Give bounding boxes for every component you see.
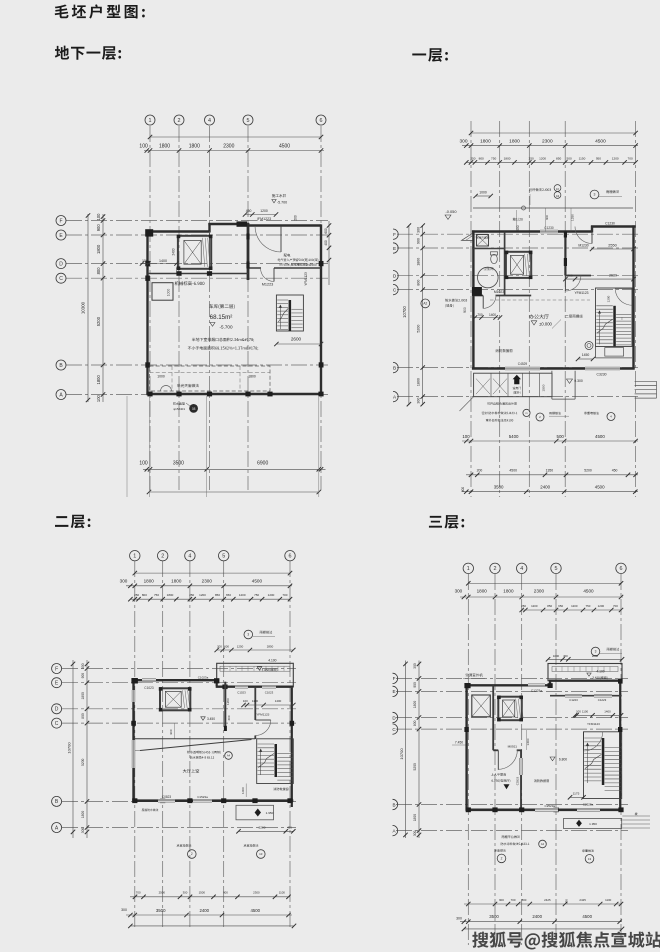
- svg-text:250: 250: [189, 593, 194, 597]
- svg-text:200: 200: [217, 644, 222, 648]
- svg-text:5: 5: [222, 554, 225, 560]
- svg-text:1: 1: [467, 566, 470, 572]
- basement dim 2600: [274, 337, 323, 347]
- svg-text:900: 900: [417, 238, 421, 244]
- svg-text:1200: 1200: [226, 698, 230, 705]
- second-floor column blocks: [131, 678, 294, 803]
- svg-text:5400: 5400: [509, 434, 519, 439]
- svg-text:C1230: C1230: [605, 221, 615, 225]
- svg-text:YFM1123: YFM1123: [256, 713, 269, 717]
- svg-text:850: 850: [215, 593, 220, 597]
- svg-text:500: 500: [567, 156, 572, 160]
- svg-text:1000: 1000: [167, 289, 171, 297]
- subtitle 一层: [412, 48, 448, 62]
- svg-text:A4: A4: [227, 753, 231, 757]
- first-floor dim 2680: [563, 274, 636, 282]
- svg-text:2500: 2500: [159, 890, 166, 894]
- svg-text:250: 250: [470, 156, 475, 160]
- svg-text:2300: 2300: [542, 138, 553, 144]
- svg-text:-5.700: -5.700: [219, 325, 232, 330]
- svg-text:1800: 1800: [167, 593, 174, 597]
- first-floor dim 2550: [590, 244, 636, 252]
- third-floor interior walls: [493, 685, 522, 810]
- svg-text:1800: 1800: [189, 144, 200, 150]
- svg-text:m: m: [525, 412, 527, 415]
- svg-text:1400: 1400: [604, 710, 611, 714]
- basement dims 150 1400: [140, 259, 180, 273]
- svg-text:300: 300: [81, 663, 85, 669]
- svg-text:300: 300: [456, 916, 462, 920]
- svg-text:500: 500: [557, 434, 565, 439]
- svg-text:YFM1123: YFM1123: [304, 272, 308, 286]
- svg-text:A3: A3: [556, 194, 560, 198]
- svg-text:F: F: [393, 232, 396, 237]
- svg-text:5200: 5200: [96, 316, 101, 326]
- svg-text:6900: 6900: [257, 460, 268, 466]
- svg-text:250: 250: [134, 593, 139, 597]
- basement right side dims: [294, 215, 332, 285]
- svg-text:1: 1: [133, 554, 136, 560]
- second-floor balcony jut: [215, 644, 296, 686]
- svg-text:F: F: [59, 218, 62, 224]
- second-floor void notes: [183, 751, 233, 773]
- second-floor bottom markers: [177, 844, 265, 858]
- svg-text:450: 450: [287, 826, 292, 830]
- svg-text:1100: 1100: [605, 898, 612, 902]
- svg-text:D: D: [59, 261, 63, 267]
- first-floor column grid lines: [397, 121, 640, 497]
- first-floor top dimension rows: [459, 131, 638, 165]
- svg-text:1350: 1350: [546, 469, 554, 473]
- svg-text:1800: 1800: [503, 589, 514, 594]
- first-floor ramp and slope note: [462, 210, 523, 240]
- svg-text:1200: 1200: [598, 604, 605, 608]
- svg-text:1800: 1800: [413, 701, 417, 709]
- svg-text:300: 300: [81, 828, 85, 834]
- second-floor bottom wall windows: [158, 795, 212, 803]
- third-floor stair dims: [568, 710, 623, 800]
- svg-text:5200: 5200: [584, 469, 592, 473]
- svg-text:1400: 1400: [275, 699, 282, 703]
- svg-text:300: 300: [417, 227, 421, 233]
- third-floor right side steps: [622, 816, 650, 828]
- svg-text:C0323: C0323: [516, 776, 520, 785]
- svg-text:3500: 3500: [156, 908, 166, 913]
- svg-text:1150: 1150: [579, 156, 586, 160]
- svg-text:900: 900: [413, 682, 417, 688]
- first-floor dim 1450: [576, 353, 595, 361]
- third-floor canopy below: [564, 812, 638, 828]
- svg-text:1100: 1100: [279, 890, 286, 894]
- svg-text:C1523a: C1523a: [197, 795, 208, 799]
- svg-text:750: 750: [491, 156, 496, 160]
- svg-text:800: 800: [81, 713, 85, 719]
- svg-text:1.950: 1.950: [266, 811, 274, 815]
- second-floor door YFM1123: [255, 713, 270, 736]
- svg-text:2400: 2400: [200, 908, 210, 913]
- basement left dimension column: [81, 213, 106, 402]
- svg-text:1800: 1800: [248, 374, 256, 378]
- svg-text:10700: 10700: [402, 306, 407, 318]
- svg-text:3.450: 3.450: [207, 717, 215, 721]
- svg-text:5200: 5200: [413, 763, 417, 771]
- first-floor bottom wall windows: [505, 362, 620, 377]
- svg-text:850: 850: [547, 604, 552, 608]
- first-floor wall detail marker A2: [421, 299, 467, 308]
- svg-text:4.100: 4.100: [268, 659, 276, 663]
- third-floor window C0323 label: [516, 758, 524, 785]
- svg-text:D: D: [55, 707, 59, 713]
- second-floor top dimension rows: [120, 571, 293, 602]
- svg-text:800: 800: [142, 593, 147, 597]
- svg-text:3200: 3200: [259, 826, 266, 830]
- svg-text:100: 100: [139, 144, 148, 150]
- third-floor bottom wall windows: [535, 803, 600, 812]
- second-floor jut levels: [257, 659, 277, 672]
- svg-text:1450: 1450: [582, 353, 590, 357]
- svg-text:1800: 1800: [504, 156, 511, 160]
- svg-text:1500: 1500: [542, 384, 546, 391]
- svg-text:1200: 1200: [199, 593, 206, 597]
- svg-text:1800: 1800: [81, 692, 85, 700]
- basement exterior walls: [146, 223, 322, 395]
- svg-text:M1023: M1023: [494, 290, 504, 294]
- svg-text:1000: 1000: [157, 374, 165, 378]
- svg-text:1200: 1200: [531, 604, 538, 608]
- svg-text:10700: 10700: [67, 742, 72, 754]
- svg-text:300: 300: [567, 274, 572, 278]
- basement top dimension rows: [139, 135, 324, 153]
- first-floor vertical dims 300 1250: [545, 208, 575, 232]
- third-floor bottom notes: [501, 835, 547, 847]
- third-floor stair door YFM1123: [584, 722, 603, 751]
- basement stairs: [276, 272, 307, 331]
- svg-text:2850: 2850: [592, 654, 599, 658]
- svg-text:1250: 1250: [571, 214, 575, 221]
- svg-text:M0921: M0921: [508, 745, 518, 749]
- svg-text:300: 300: [459, 138, 467, 144]
- second-floor elevator shaft: [159, 687, 192, 711]
- first-floor elevator shaft: [505, 251, 533, 280]
- svg-text:1175: 1175: [573, 792, 580, 796]
- first-floor level -0.050: [445, 209, 457, 219]
- svg-text:4500: 4500: [252, 579, 263, 584]
- third-floor stairs: [584, 732, 622, 799]
- svg-text:1200: 1200: [612, 156, 619, 160]
- basement door M1223: [261, 268, 275, 286]
- third-floor AC platform box: [472, 695, 491, 717]
- svg-text:13: 13: [588, 857, 592, 861]
- svg-text:150: 150: [176, 267, 180, 273]
- first-floor canopy dim 1000: [473, 191, 493, 199]
- first-floor canopy edge line: [473, 206, 633, 210]
- svg-text:900: 900: [169, 729, 173, 734]
- svg-text:850: 850: [556, 156, 561, 160]
- svg-text:-5.700: -5.700: [277, 201, 287, 205]
- svg-text:200: 200: [477, 469, 483, 473]
- svg-text:C1023: C1023: [144, 686, 154, 690]
- svg-text:2425: 2425: [579, 898, 586, 902]
- svg-text:300: 300: [413, 663, 417, 669]
- basement interior walls: [148, 232, 322, 274]
- svg-text:E: E: [393, 246, 396, 251]
- first-floor canopy line label: [552, 315, 583, 329]
- first-floor left dimension column: [402, 223, 425, 406]
- first-floor band dims and level: [542, 379, 583, 391]
- second-floor level mark: [201, 717, 216, 721]
- svg-text:400: 400: [227, 715, 231, 720]
- svg-text:5: 5: [247, 118, 250, 124]
- first-floor stairs: [596, 288, 633, 358]
- svg-text:B: B: [392, 802, 395, 807]
- basement storage closet: [152, 283, 173, 301]
- third-floor canopy marker 3/A-2: [591, 647, 622, 656]
- svg-text:300: 300: [455, 589, 463, 594]
- svg-text:400: 400: [324, 240, 328, 246]
- svg-text:2: 2: [494, 566, 497, 572]
- svg-text:2300: 2300: [534, 589, 545, 594]
- first-floor fire window label: [495, 349, 512, 352]
- svg-text:E: E: [392, 689, 395, 694]
- svg-text:C1023: C1023: [237, 691, 246, 695]
- third-floor exterior walls: [466, 680, 623, 811]
- svg-text:1200: 1200: [571, 604, 578, 608]
- first-floor window C1230 top wall: [540, 226, 558, 233]
- svg-text:4500: 4500: [509, 469, 517, 473]
- svg-text:C1023a: C1023a: [198, 675, 209, 679]
- svg-text:1000: 1000: [553, 654, 560, 658]
- svg-text:C1223: C1223: [569, 698, 578, 702]
- third-floor level 7.450 left: [452, 740, 466, 745]
- svg-text:100: 100: [462, 434, 470, 439]
- first-floor railing note with bubbles: [529, 185, 561, 205]
- second-floor canopy marker 3/A-2: [244, 630, 275, 639]
- svg-text:300: 300: [545, 215, 549, 220]
- third-floor roof terrace labels: [491, 773, 510, 789]
- third-floor balcony edge: [546, 654, 624, 681]
- svg-text:750: 750: [585, 604, 590, 608]
- first-floor detail double circle: [585, 342, 593, 350]
- svg-text:600: 600: [324, 228, 328, 234]
- svg-text:300: 300: [413, 830, 417, 836]
- svg-text:1800: 1800: [96, 244, 101, 254]
- svg-text:4500: 4500: [595, 138, 606, 144]
- svg-text:1800: 1800: [417, 258, 421, 266]
- svg-text:1800: 1800: [509, 138, 520, 144]
- svg-text:4: 4: [208, 118, 211, 124]
- svg-text:1400: 1400: [489, 313, 496, 317]
- svg-text:3500: 3500: [173, 460, 184, 466]
- svg-text:100: 100: [243, 699, 248, 703]
- third-floor inner wall right section: [550, 694, 622, 703]
- basement area notes: [188, 338, 258, 351]
- second-floor stairs: [257, 739, 294, 784]
- svg-text:600: 600: [224, 644, 229, 648]
- second-floor void outline: [135, 739, 255, 751]
- svg-text:B: B: [393, 365, 396, 370]
- basement electrical room notes: [278, 254, 318, 267]
- svg-text:2300: 2300: [253, 890, 260, 894]
- svg-text:M1223: M1223: [262, 282, 274, 286]
- svg-text:1000: 1000: [479, 191, 487, 195]
- svg-text:1100: 1100: [252, 699, 259, 703]
- third-floor column blocks: [464, 679, 623, 813]
- first-floor column block C row: [472, 287, 482, 296]
- svg-text:1200: 1200: [607, 295, 611, 302]
- svg-text:200: 200: [294, 215, 298, 221]
- second-floor top wall windows: [142, 675, 276, 694]
- svg-text:900: 900: [499, 898, 504, 902]
- svg-text:800: 800: [413, 720, 417, 726]
- basement column grid lines: [66, 126, 328, 490]
- first-floor window label C1230 right: [605, 221, 615, 225]
- watermark 搜狐号@搜狐焦点宣城站: [472, 931, 660, 949]
- svg-text:1800: 1800: [144, 579, 155, 584]
- third-floor left dimension column: [399, 661, 421, 839]
- svg-text:2550: 2550: [608, 244, 616, 248]
- first-floor louver window band: [460, 373, 553, 411]
- third-floor grid bubbles left (clipped): [392, 673, 397, 836]
- svg-text:950: 950: [596, 156, 601, 160]
- svg-text:C2523a: C2523a: [583, 803, 594, 807]
- first-floor canopy marker 3/A-2: [590, 190, 622, 199]
- svg-text:1100: 1100: [582, 710, 589, 714]
- svg-text:1000: 1000: [241, 787, 245, 794]
- svg-text:300: 300: [121, 908, 127, 912]
- basement skylight dashed outline: [150, 366, 271, 391]
- third-floor level 6.800: [550, 757, 567, 762]
- svg-text:100: 100: [139, 460, 148, 466]
- svg-text:650: 650: [558, 604, 563, 608]
- first-floor bathroom walls: [473, 232, 531, 297]
- svg-text:68.15m²: 68.15m²: [210, 314, 233, 321]
- svg-text:1800: 1800: [96, 374, 101, 384]
- svg-text:M1230: M1230: [578, 243, 588, 247]
- svg-text:F: F: [55, 666, 58, 672]
- svg-text:4: 4: [520, 566, 523, 572]
- svg-text:3500: 3500: [494, 484, 504, 489]
- first-floor door YFM1123: [565, 276, 588, 296]
- sheet title 毛坯户型图: [55, 4, 145, 18]
- first-floor interior wall grid5: [564, 232, 591, 276]
- svg-text:1200: 1200: [260, 209, 268, 213]
- svg-text:700: 700: [282, 593, 287, 597]
- svg-text:650: 650: [226, 593, 231, 597]
- svg-text:2850: 2850: [267, 644, 274, 648]
- svg-text:2600: 2600: [291, 337, 302, 342]
- third-floor grid bubbles top: [463, 563, 626, 573]
- svg-text:0.300: 0.300: [574, 379, 583, 383]
- svg-text:300: 300: [565, 899, 569, 904]
- svg-text:900: 900: [463, 307, 467, 313]
- svg-text:2300: 2300: [223, 144, 234, 150]
- svg-text:1: 1: [149, 118, 152, 124]
- basement room label: [209, 304, 234, 329]
- svg-text:5200: 5200: [81, 758, 85, 766]
- second-floor left wall window: [131, 690, 135, 768]
- svg-text:1400: 1400: [159, 259, 167, 263]
- svg-text:5: 5: [555, 566, 558, 572]
- svg-text:300: 300: [183, 890, 188, 894]
- svg-text:100: 100: [96, 394, 101, 402]
- svg-text:13: 13: [259, 852, 263, 856]
- svg-text:450: 450: [246, 209, 252, 213]
- svg-text:2400: 2400: [532, 914, 542, 919]
- svg-text:2: 2: [161, 554, 164, 560]
- basement level label -6.900: [175, 281, 205, 285]
- svg-text:A2: A2: [423, 302, 427, 306]
- basement grid bubbles left: [56, 216, 66, 400]
- svg-text:250: 250: [529, 156, 534, 160]
- svg-text:1800: 1800: [417, 378, 421, 386]
- svg-text:F: F: [393, 676, 396, 681]
- svg-text:100: 100: [96, 213, 101, 221]
- svg-text:C3230: C3230: [597, 373, 607, 377]
- third-floor fire window label: [534, 779, 549, 782]
- svg-text:2: 2: [191, 852, 193, 856]
- svg-text:250: 250: [521, 604, 526, 608]
- third-floor AC unit label: [463, 673, 485, 678]
- first-floor grid bubbles left (clipped): [393, 229, 398, 402]
- basement drain detail bubble: [173, 402, 198, 413]
- first-floor door M1023: [483, 290, 504, 308]
- svg-text:4500: 4500: [595, 434, 605, 439]
- svg-text:700: 700: [511, 898, 516, 902]
- basement bottom dimension rows: [139, 460, 325, 494]
- svg-text:3500: 3500: [489, 914, 499, 919]
- second-floor interior dims: [226, 698, 296, 721]
- second-floor fire window label: [241, 784, 289, 798]
- basement column blocks: [145, 221, 323, 396]
- svg-text:450: 450: [612, 469, 618, 473]
- svg-text:100: 100: [576, 710, 581, 714]
- svg-text:4500: 4500: [279, 144, 290, 150]
- svg-text:A4: A4: [541, 842, 545, 846]
- subtitle 三层: [429, 515, 464, 529]
- third-floor door M0921: [498, 745, 517, 770]
- third-floor dim 1300: [526, 730, 530, 750]
- svg-text:4: 4: [188, 554, 191, 560]
- basement door dims 450 1200: [243, 209, 278, 221]
- svg-text:2400: 2400: [540, 484, 550, 489]
- third-floor top dimension rows: [455, 581, 624, 612]
- svg-text:1.950: 1.950: [589, 822, 597, 826]
- svg-text:10700: 10700: [399, 748, 404, 760]
- svg-text:7.450: 7.450: [455, 740, 463, 744]
- svg-text:2: 2: [501, 857, 503, 861]
- svg-text:800: 800: [96, 267, 101, 275]
- first-floor stair door: [615, 288, 632, 305]
- svg-text:08: 08: [192, 407, 196, 411]
- svg-text:C: C: [59, 276, 63, 282]
- svg-text:YFM1123: YFM1123: [587, 722, 600, 726]
- first-floor hall label: [529, 314, 552, 326]
- svg-text:300: 300: [417, 398, 421, 404]
- second-floor grid bubbles top: [130, 551, 296, 561]
- svg-text:700: 700: [477, 313, 483, 317]
- first-floor exterior walls: [472, 225, 636, 369]
- svg-text:300: 300: [120, 579, 128, 584]
- svg-text:φ15J401: φ15J401: [173, 407, 185, 411]
- svg-text:C1223a: C1223a: [531, 689, 542, 693]
- svg-text:900: 900: [81, 673, 85, 679]
- svg-text:400: 400: [563, 654, 568, 658]
- svg-text:C0823: C0823: [162, 795, 172, 799]
- second-floor canopy below: [142, 805, 296, 833]
- third-floor column grid lines: [396, 574, 628, 945]
- svg-text:700: 700: [628, 156, 633, 160]
- subtitle 地下一层: [55, 46, 121, 60]
